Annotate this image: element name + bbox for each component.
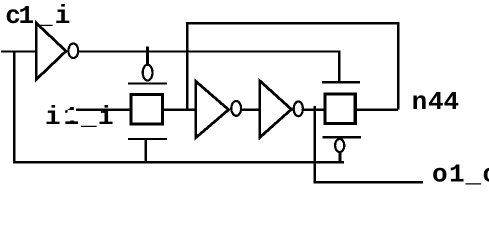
X1 PMOS gate stem [146,47,149,66]
svg-text:n44: n44 [412,87,460,117]
wire output branch to o1_o [315,106,423,182]
port label i1_i [45,102,114,132]
X2 NMOS gate bubble [335,139,344,152]
feedback wire top loop [187,23,398,109]
inverter U3 [260,81,303,138]
transmission gate X1 [131,94,163,124]
net label n44 [412,87,460,117]
port label c1_i [5,1,70,31]
X2 bottom gate stem [339,152,342,163]
X2 top gate plate [322,81,360,83]
svg-text:i1_i: i1_i [45,102,114,132]
wire X1 to U2 [163,109,196,111]
inverter U2 [196,81,241,138]
X1 PMOS gate bubble [143,65,153,81]
port label o1_o [432,159,489,189]
X2 bottom gate plate [323,136,362,138]
wire i1_i to X1 [76,109,130,111]
wire U2 to U3 [242,109,260,111]
X1 top gate plate [128,82,167,84]
inverter U1 [36,23,78,80]
wire inverted clock rail to X2 top gate [79,52,339,82]
X1 NMOS gate stem [144,139,147,163]
wire U3 to X2 [303,109,324,111]
svg-text:c1_i: c1_i [5,1,70,31]
wire X2 to n44 [356,109,398,111]
X1 bottom gate plate [128,138,167,140]
transmission gate X2 [325,94,355,124]
wire input c1_i [1,50,36,52]
svg-text:o1_o: o1_o [432,159,489,188]
wire clock branch down and bottom rail [14,51,344,162]
